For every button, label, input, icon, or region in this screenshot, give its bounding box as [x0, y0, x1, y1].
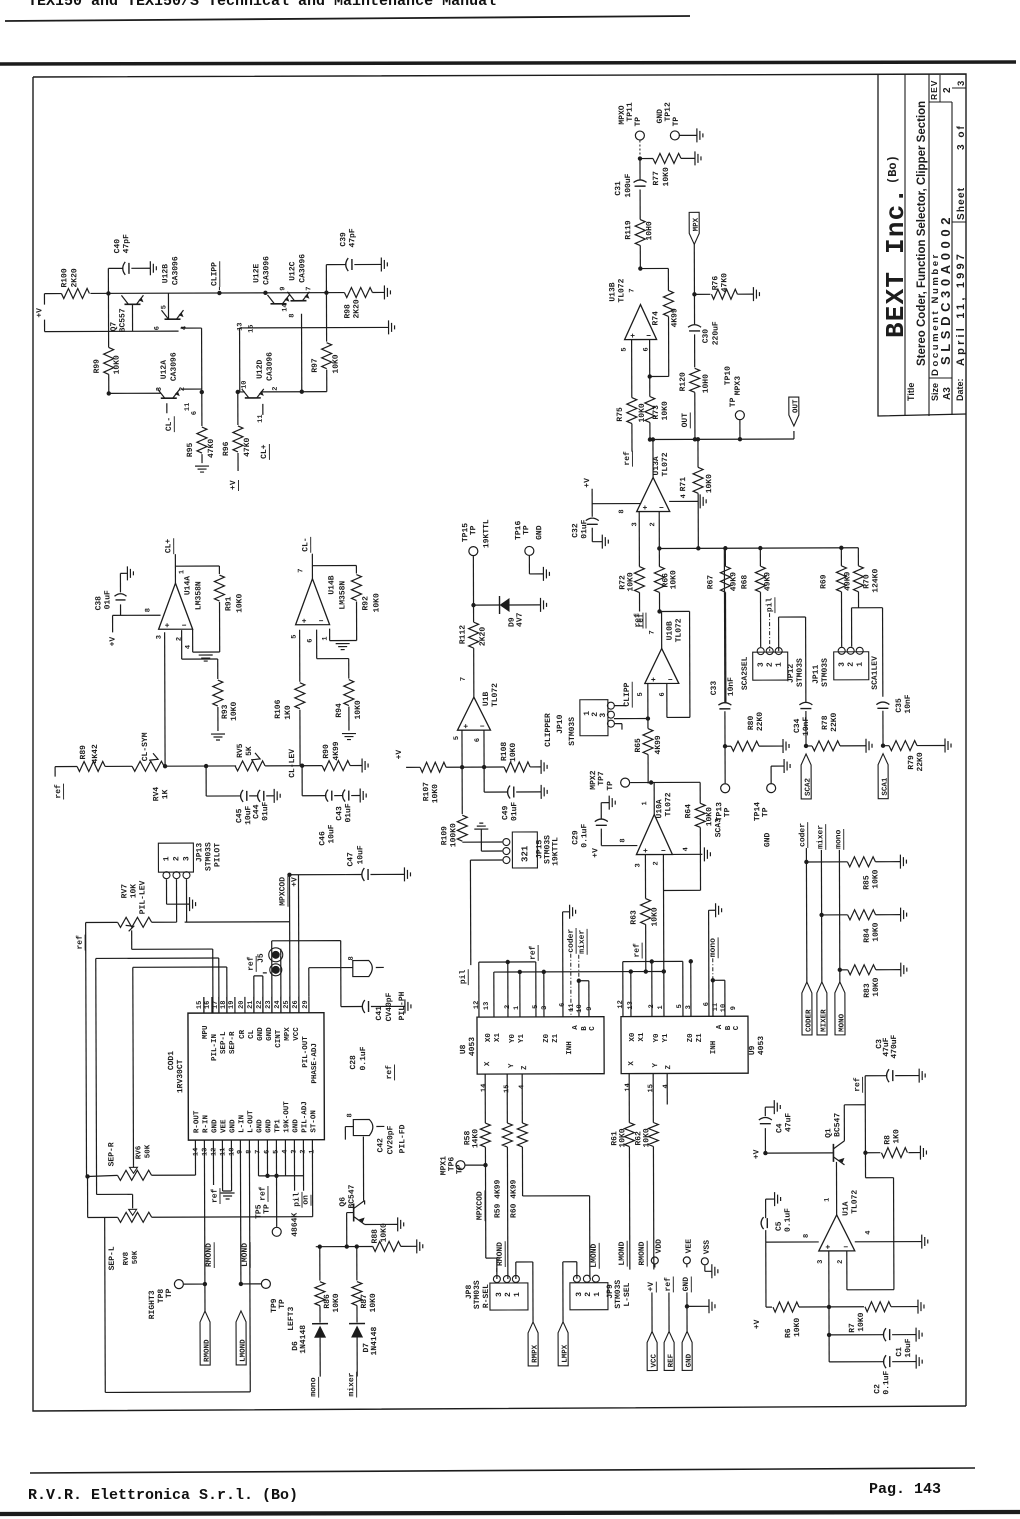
wire VCC col	[654, 1264, 656, 1267]
node U12C rail	[324, 290, 328, 294]
wire main clipper rail	[44, 293, 61, 295]
svg-text:U12A: U12A	[160, 360, 169, 379]
wire RV8 wiper	[97, 1193, 133, 1195]
svg-text:INH: INH	[710, 1041, 718, 1055]
svg-text:R92: R92	[361, 596, 370, 611]
svg-text:RMOND: RMOND	[205, 1243, 214, 1267]
footer rule	[30, 1468, 975, 1473]
svg-text:1: 1	[775, 662, 784, 667]
wire OUT tag stub	[793, 431, 795, 439]
resistor R67	[724, 548, 726, 566]
wire JP9 left to LMPX	[576, 1262, 578, 1279]
capacitor C45	[241, 790, 244, 802]
wire R60 jog to JP9	[523, 1195, 590, 1197]
svg-text:mono: mono	[309, 1377, 318, 1396]
svg-text:19KTTL: 19KTTL	[551, 837, 560, 866]
svg-text:CLIPP: CLIPP	[210, 262, 219, 286]
svg-text:on: on	[302, 1195, 311, 1205]
svg-text:3: 3	[817, 1260, 825, 1264]
svg-text:B: B	[725, 1025, 733, 1030]
svg-text:10K0: 10K0	[354, 700, 363, 719]
svg-text:CL-: CL-	[301, 537, 310, 551]
svg-text:MPX: MPX	[693, 217, 701, 231]
resistor R99	[107, 293, 109, 347]
svg-text:10K0: 10K0	[372, 593, 381, 612]
svg-text:Pag. 143: Pag. 143	[869, 1481, 941, 1498]
svg-text:2: 2	[847, 662, 856, 667]
label RMOND tag	[200, 1311, 210, 1365]
svg-text:10K0: 10K0	[872, 977, 881, 996]
svg-text:GND: GND	[682, 1277, 691, 1292]
wire MPX down	[693, 244, 695, 324]
wire U1A feedback	[846, 1251, 848, 1290]
svg-text:TP: TP	[469, 525, 478, 535]
resistor R100	[61, 288, 89, 298]
svg-text:Q1: Q1	[824, 1128, 833, 1138]
svg-text:pil: pil	[293, 1192, 302, 1207]
resistor R106 on U14B pin5	[299, 630, 301, 682]
wire TP10 down	[739, 419, 741, 439]
op-amp U10B	[645, 648, 679, 683]
svg-text:TP: TP	[165, 1288, 174, 1298]
svg-text:PIL-PH: PIL-PH	[398, 991, 407, 1020]
svg-text:R112: R112	[459, 625, 468, 644]
node rail 726	[723, 546, 727, 550]
ground at C49	[540, 785, 542, 799]
svg-text:10K0: 10K0	[705, 807, 714, 826]
svg-text:C39: C39	[339, 232, 348, 247]
capacitor C38	[120, 604, 122, 615]
wire TP7 row	[630, 781, 700, 783]
wire U14A pin4 gnd	[192, 629, 194, 652]
svg-text:COD1: COD1	[167, 1051, 176, 1070]
svg-text:CA3096: CA3096	[170, 352, 179, 381]
svg-text:mono: mono	[709, 938, 718, 957]
svg-text:C33: C33	[710, 681, 719, 696]
svg-text:R90: R90	[322, 744, 331, 759]
header rule under running title	[5, 16, 690, 21]
node C33 bottom	[723, 744, 727, 748]
svg-text:22K0: 22K0	[830, 712, 839, 731]
svg-text:4K99: 4K99	[332, 741, 341, 760]
svg-text:10K0: 10K0	[651, 907, 660, 926]
svg-text:100uF: 100uF	[624, 173, 633, 197]
svg-text:Y0: Y0	[653, 1033, 661, 1043]
svg-text:10K0: 10K0	[113, 355, 122, 374]
capacitor C3	[865, 1075, 887, 1077]
svg-text:BC547: BC547	[833, 1113, 842, 1137]
jumper JP10	[580, 700, 608, 736]
node U12D collector	[300, 390, 304, 394]
svg-text:10H0: 10H0	[702, 374, 711, 393]
svg-text:mono: mono	[834, 829, 843, 848]
label MONO tag	[835, 982, 845, 1035]
wire U10A pin8	[601, 845, 637, 847]
svg-text:3: 3	[182, 856, 191, 861]
op-amp U1A	[819, 1215, 855, 1251]
node U10B in	[657, 609, 661, 613]
resistor R89	[77, 761, 105, 771]
svg-text:3 of: 3 of	[956, 124, 967, 150]
svg-text:C44: C44	[252, 804, 261, 819]
svg-text:49K9: 49K9	[729, 572, 738, 591]
wire TP6 row	[465, 1164, 485, 1166]
svg-text:01uF: 01uF	[580, 519, 589, 538]
node U12A/R95	[200, 390, 204, 394]
svg-text:SEP-R: SEP-R	[229, 1031, 237, 1054]
svg-text:TP: TP	[672, 117, 681, 127]
wire U8 ref rail upper	[479, 961, 536, 963]
svg-text:4K99: 4K99	[654, 735, 663, 754]
node RV4/pin3	[163, 764, 167, 768]
label GND tag	[682, 1331, 692, 1370]
svg-text:R97: R97	[311, 358, 320, 373]
svg-text:R99: R99	[93, 359, 102, 374]
svg-text:5K: 5K	[245, 746, 254, 756]
svg-text:R88: R88	[371, 1229, 380, 1244]
svg-text:R93: R93	[221, 704, 230, 719]
svg-text:8: 8	[803, 1234, 811, 1238]
svg-text:CL+: CL+	[260, 444, 269, 459]
ground at C32	[601, 535, 603, 549]
jumper JP11	[834, 652, 869, 680]
wire CL- stub	[166, 403, 168, 413]
ground at R93	[211, 733, 225, 735]
svg-text:CL-LEV: CL-LEV	[288, 749, 297, 778]
svg-text:0.1uF: 0.1uF	[784, 1208, 793, 1232]
svg-text:5: 5	[160, 305, 168, 309]
svg-text:+V: +V	[591, 848, 600, 858]
svg-text:ST-ON: ST-ON	[310, 1110, 318, 1133]
svg-text:8: 8	[346, 1113, 354, 1117]
svg-text:R87: R87	[360, 1294, 369, 1309]
capacitor C1	[883, 1328, 886, 1341]
wire pin14 to RV6	[194, 1140, 196, 1175]
ground at R108	[540, 760, 542, 774]
svg-text:10uF: 10uF	[327, 824, 336, 843]
ground U8 INH	[569, 905, 571, 919]
wire coder dash	[570, 954, 572, 1017]
wire JP13 pin1 gnd	[165, 879, 167, 904]
svg-text:PIL-OUT: PIL-OUT	[302, 1036, 310, 1068]
svg-text:+V: +V	[647, 1282, 656, 1292]
svg-text:TL072: TL072	[617, 278, 626, 302]
ground at C38	[126, 566, 128, 580]
svg-text:SCA2: SCA2	[805, 777, 813, 796]
wire ref rail long	[494, 970, 664, 973]
wire JP13 pin3 down	[185, 879, 187, 922]
svg-text:3: 3	[541, 1006, 549, 1010]
resistor R63	[641, 899, 651, 925]
wire TP8 row	[184, 1283, 205, 1285]
ground at R98	[383, 285, 385, 299]
diode D7	[349, 1323, 365, 1325]
svg-text:10K0: 10K0	[793, 1318, 802, 1337]
svg-text:GND: GND	[535, 525, 544, 540]
wire mono to B C	[711, 978, 715, 982]
resistor R80	[725, 745, 731, 747]
svg-text:01uF: 01uF	[103, 590, 112, 609]
svg-text:Sheet: Sheet	[956, 187, 967, 220]
ground at R83	[900, 963, 902, 977]
node OUT rail left	[648, 437, 652, 441]
capacitor C31	[639, 159, 641, 180]
svg-text:TP7: TP7	[597, 771, 606, 786]
resistor R64	[699, 782, 701, 803]
svg-text:R77: R77	[652, 171, 661, 186]
svg-text:R65: R65	[634, 738, 643, 753]
svg-text:R67: R67	[706, 575, 715, 590]
svg-text:pil: pil	[766, 597, 775, 612]
svg-text:1K: 1K	[161, 789, 170, 799]
wire C30 to R120	[694, 334, 696, 367]
node U10A out	[649, 780, 653, 784]
wire U12A collector to node	[181, 388, 202, 390]
wire R6 row	[766, 1306, 772, 1308]
svg-text:10K0: 10K0	[626, 572, 635, 591]
ground at C43	[359, 789, 361, 803]
svg-text:U12D: U12D	[256, 359, 265, 378]
capacitor C2	[884, 1355, 887, 1368]
svg-text:U14B: U14B	[327, 575, 336, 594]
svg-text:U10A: U10A	[655, 799, 664, 818]
svg-text:R100: R100	[60, 268, 69, 287]
svg-text:R78: R78	[821, 715, 830, 730]
wire pin2 on	[302, 1140, 304, 1191]
svg-text:J5: J5	[257, 953, 266, 963]
resistor R85	[847, 857, 875, 867]
title block line col3/col4	[951, 102, 953, 415]
svg-text:CLIPP: CLIPP	[623, 682, 632, 706]
svg-text:10K0: 10K0	[380, 1223, 389, 1242]
svg-text:C46: C46	[318, 831, 327, 846]
wire D9 row	[474, 604, 500, 606]
svg-text:10: 10	[228, 1148, 236, 1156]
svg-text:GND: GND	[763, 832, 772, 847]
svg-text:TL072: TL072	[664, 792, 673, 816]
svg-text:STM03S: STM03S	[568, 717, 577, 746]
svg-text:R85: R85	[862, 875, 871, 890]
wire U13A out	[652, 439, 654, 477]
svg-text:6: 6	[307, 638, 315, 642]
resistor R93	[213, 680, 223, 706]
node C44 junction	[204, 764, 208, 768]
capacitor C29	[600, 829, 602, 846]
wire U9 upper rail	[623, 960, 683, 962]
wire JP15 mid gnd	[481, 850, 502, 852]
svg-text:3: 3	[956, 81, 967, 86]
svg-text:R119: R119	[624, 220, 633, 239]
wire JP10 mid to node	[614, 718, 648, 720]
label VCC tag	[647, 1331, 657, 1370]
svg-text:SCA1LEV: SCA1LEV	[871, 656, 880, 690]
node JP10 row	[646, 716, 650, 720]
svg-text:1K0: 1K0	[892, 1129, 901, 1144]
svg-text:STM03S: STM03S	[473, 1280, 482, 1309]
svg-text:220uF: 220uF	[712, 321, 721, 345]
resistor R74	[663, 290, 673, 316]
resistor R86	[319, 1247, 321, 1281]
wire pin15 stub	[203, 997, 205, 1013]
wire TP5 stub	[276, 1176, 278, 1227]
resistor R60	[517, 1123, 527, 1147]
wire CL+ to U14A out	[174, 554, 176, 583]
svg-text:Z0: Z0	[543, 1033, 551, 1043]
diode D6	[312, 1323, 328, 1325]
svg-text:STM03S: STM03S	[204, 842, 213, 871]
svg-text:TP: TP	[729, 397, 738, 407]
node D9	[471, 603, 475, 607]
svg-text:3: 3	[631, 522, 639, 526]
ground at C4	[773, 1100, 775, 1114]
svg-text:ref: ref	[664, 1277, 673, 1292]
label MPX tag	[689, 212, 699, 244]
svg-text:SCA2SEL: SCA2SEL	[741, 656, 750, 690]
svg-text:Z1: Z1	[696, 1033, 704, 1043]
svg-text:R8: R8	[883, 1135, 892, 1145]
svg-text:1: 1	[178, 570, 186, 574]
svg-text:+V: +V	[395, 750, 404, 760]
svg-text:2: 2	[504, 1292, 513, 1297]
svg-text:Z: Z	[521, 1065, 529, 1070]
svg-text:MPX: MPX	[284, 1027, 292, 1041]
svg-text:CA3096: CA3096	[171, 256, 180, 285]
svg-text:C31: C31	[614, 181, 623, 196]
wire U1A pin3 col	[828, 1251, 830, 1307]
label OUT tag	[789, 397, 799, 426]
wire pin4 stub	[284, 1140, 286, 1176]
svg-text:VCC: VCC	[651, 1353, 659, 1367]
svg-text:R60 4K99: R60 4K99	[510, 1179, 519, 1218]
svg-text:mixer: mixer	[816, 825, 825, 849]
svg-text:R71: R71	[679, 477, 688, 492]
wire R88 row	[316, 1245, 373, 1247]
svg-text:5: 5	[637, 692, 645, 696]
svg-text:R109: R109	[440, 826, 449, 845]
svg-text:10K0: 10K0	[705, 474, 714, 493]
resistor R59	[502, 1123, 512, 1147]
label SCA2 tag	[801, 754, 811, 799]
svg-text:TP1: TP1	[274, 1119, 282, 1133]
svg-text:LM358N: LM358N	[338, 581, 347, 610]
wire U8 pin15 R59	[506, 1074, 508, 1123]
svg-text:10H0: 10H0	[645, 221, 654, 240]
svg-text:U14A: U14A	[183, 576, 192, 595]
jumper JP8	[490, 1283, 528, 1310]
svg-text:R96: R96	[222, 441, 231, 456]
wire +V col at C5	[765, 1242, 767, 1307]
ground at C40	[149, 261, 151, 275]
svg-text:BC557: BC557	[118, 308, 127, 332]
node rail 761	[758, 546, 762, 550]
svg-text:10K0: 10K0	[662, 167, 671, 186]
node ref rail R63	[644, 969, 648, 973]
svg-text:R-OUT: R-OUT	[193, 1110, 201, 1133]
wire GND pins up	[253, 976, 255, 1013]
title block line col1/col2	[904, 74, 906, 416]
svg-text:RMOND: RMOND	[638, 1241, 647, 1265]
wire Q1 emitter node	[863, 1151, 867, 1155]
svg-text:2: 2	[176, 637, 184, 641]
svg-text:15: 15	[196, 1001, 204, 1009]
svg-text:R94: R94	[335, 703, 344, 718]
wire U8 INH gnd	[562, 912, 564, 1017]
svg-text:2: 2	[652, 861, 660, 865]
wire CINT/MPX/VCC drops	[271, 941, 273, 1013]
resistor R112	[473, 605, 475, 622]
ground U14A pin4	[199, 654, 213, 656]
jumper JP13	[158, 843, 193, 872]
test point TP15	[469, 547, 478, 556]
resistor R88	[373, 1241, 401, 1251]
svg-text:mixer: mixer	[578, 930, 587, 954]
svg-text:6: 6	[659, 692, 667, 696]
svg-text:13: 13	[237, 323, 245, 331]
svg-text:10K0: 10K0	[661, 401, 670, 420]
resistor R83	[848, 965, 876, 975]
svg-text:L-SEL: L-SEL	[623, 1282, 632, 1306]
svg-text:TL072: TL072	[491, 683, 500, 707]
svg-text:2: 2	[649, 522, 657, 526]
ground at Q6	[397, 1217, 399, 1231]
svg-text:MPU: MPU	[202, 1025, 210, 1039]
svg-text:LMOND: LMOND	[240, 1339, 248, 1362]
wire U12D interconnect	[238, 391, 245, 393]
svg-text:0.1uF: 0.1uF	[580, 824, 589, 848]
resistor R66	[658, 548, 660, 566]
svg-text:C34: C34	[793, 718, 802, 733]
svg-text:2K20: 2K20	[479, 627, 488, 646]
node U12D base	[236, 390, 240, 394]
label CL+ under U12D	[262, 404, 264, 415]
svg-text:C35: C35	[895, 698, 904, 713]
svg-text:10K0: 10K0	[618, 1128, 627, 1147]
wire R84 row	[822, 914, 848, 916]
resistor R68	[759, 548, 761, 566]
node U13A out	[651, 437, 655, 441]
svg-text:9: 9	[586, 1007, 594, 1011]
resistor R108	[504, 762, 530, 772]
wire +V row Q1	[765, 1152, 833, 1154]
svg-text:14: 14	[480, 1084, 488, 1092]
wire U10A pin4 gnd	[672, 853, 702, 855]
svg-text:GND: GND	[292, 1119, 300, 1133]
potentiometer RV6	[117, 1170, 151, 1180]
svg-text:JP11: JP11	[812, 665, 821, 684]
capacitor C5	[765, 1230, 767, 1242]
svg-text:OUT: OUT	[792, 399, 800, 413]
svg-text:R83: R83	[863, 983, 872, 998]
svg-text:REF: REF	[668, 1353, 676, 1367]
svg-text:PHASE-ADJ: PHASE-ADJ	[311, 1043, 319, 1084]
test point TP10	[735, 411, 744, 420]
svg-text:CL: CL	[248, 1029, 256, 1039]
svg-text:C29: C29	[571, 830, 580, 845]
resistor R76	[694, 293, 710, 295]
svg-text:C28: C28	[349, 1055, 358, 1070]
ground at VEE	[221, 1192, 235, 1194]
ground U14B pin1	[336, 643, 350, 645]
wire row957 SEP-L	[96, 957, 219, 959]
wire mixer to B C	[577, 979, 581, 983]
svg-text:PIL-LEV: PIL-LEV	[138, 880, 147, 914]
svg-text:10K0: 10K0	[871, 869, 880, 888]
svg-text:C47: C47	[346, 852, 355, 867]
svg-text:MIXER: MIXER	[820, 1009, 828, 1032]
svg-text:CV40pF: CV40pF	[385, 992, 394, 1021]
capacitor C32	[586, 518, 599, 521]
resistor R75	[631, 340, 633, 398]
